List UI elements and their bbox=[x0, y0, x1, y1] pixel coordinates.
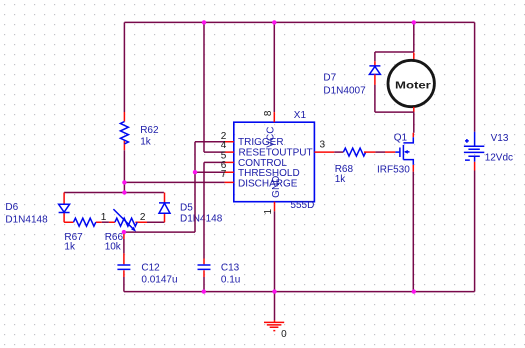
svg-text:0: 0 bbox=[281, 329, 287, 340]
wire pin6 threshold bbox=[195, 171, 225, 173]
wire motor branch from rail bbox=[413, 22, 415, 52]
svg-text:12Vdc: 12Vdc bbox=[485, 153, 513, 164]
svg-text:7: 7 bbox=[221, 169, 227, 180]
svg-text:1k: 1k bbox=[140, 136, 152, 147]
wire diode loop top bbox=[64, 192, 164, 194]
svg-text:Moter: Moter bbox=[395, 80, 431, 91]
svg-text:OUTPUT: OUTPUT bbox=[272, 147, 313, 158]
svg-text:4: 4 bbox=[221, 140, 227, 151]
pin stub 555 output bbox=[314, 151, 334, 153]
resistor R68 bbox=[343, 148, 375, 156]
svg-text:D7: D7 bbox=[323, 73, 336, 84]
svg-text:10k: 10k bbox=[105, 242, 122, 253]
junction discharge wire bbox=[122, 180, 126, 184]
wire freewheel top bbox=[375, 51, 414, 53]
svg-text:0.1u: 0.1u bbox=[221, 275, 240, 286]
svg-text:D1N4007: D1N4007 bbox=[323, 85, 366, 96]
wire freewheel bottom bbox=[375, 112, 414, 133]
wire C12 to ground rail bbox=[123, 277, 125, 292]
wire source to rail bbox=[412, 172, 414, 292]
svg-text:2: 2 bbox=[140, 212, 146, 223]
resistor R67 bbox=[64, 218, 102, 226]
wire pin7 discharge bbox=[124, 181, 224, 183]
transistor Q1 IRF530 bbox=[400, 133, 413, 172]
wire battery to rail bbox=[474, 171, 476, 292]
svg-text:GND: GND bbox=[271, 176, 282, 198]
wire R68 to gate bbox=[375, 151, 385, 153]
svg-text:1k: 1k bbox=[64, 242, 76, 253]
pin stub 555 vcc bbox=[273, 22, 275, 112]
svg-text:D5: D5 bbox=[180, 202, 193, 213]
junction rail gnd bbox=[272, 289, 276, 293]
diode D7 bbox=[369, 52, 380, 112]
wire control branch to C13 bbox=[204, 162, 225, 258]
svg-text:V13: V13 bbox=[491, 133, 509, 144]
svg-text:RESET: RESET bbox=[239, 147, 272, 158]
junction top rail / reset branch bbox=[202, 20, 206, 24]
voltage source V13 bbox=[464, 132, 484, 162]
diode D5 bbox=[159, 193, 170, 223]
ground rail bbox=[124, 291, 475, 293]
wire wiper to trigger branch bbox=[124, 231, 195, 233]
wire between R67 and R66 bbox=[102, 221, 109, 223]
svg-text:VCC: VCC bbox=[266, 127, 277, 148]
junction diode loop top bbox=[122, 190, 126, 194]
svg-text:TRIGGER: TRIGGER bbox=[238, 137, 284, 148]
wire from top rail down to R62 bbox=[123, 22, 125, 112]
svg-text:3: 3 bbox=[320, 140, 326, 151]
motor M1 bbox=[388, 60, 434, 106]
svg-text:DISCHARGE: DISCHARGE bbox=[238, 178, 298, 189]
resistor R62 bbox=[120, 112, 128, 150]
svg-text:D1N4148: D1N4148 bbox=[180, 213, 223, 224]
svg-text:IRF530: IRF530 bbox=[377, 165, 410, 176]
junction wiper node bbox=[122, 230, 126, 234]
capacitor C12 bbox=[117, 253, 130, 277]
svg-text:0.0147u: 0.0147u bbox=[141, 275, 177, 286]
wire battery from rail bbox=[474, 22, 476, 131]
junction threshold pin bbox=[193, 170, 197, 174]
svg-text:1: 1 bbox=[101, 212, 107, 223]
wire output row bbox=[334, 151, 343, 153]
diode D6 bbox=[59, 193, 70, 223]
pin stubs 555 left bbox=[225, 142, 234, 183]
svg-text:Q1: Q1 bbox=[394, 133, 408, 144]
wire R62 down to discharge node bbox=[123, 150, 125, 192]
svg-text:C12: C12 bbox=[141, 263, 160, 274]
wire gnd symbol stem bbox=[274, 292, 276, 320]
pin stub motor bottom bbox=[413, 107, 415, 112]
junction top rail / motor branch bbox=[412, 20, 416, 24]
wire top supply rail bbox=[124, 21, 474, 23]
svg-text:1: 1 bbox=[263, 208, 274, 214]
svg-text:D6: D6 bbox=[5, 202, 18, 213]
op-amp U1 555 timer X1 bbox=[234, 122, 315, 202]
svg-text:1k: 1k bbox=[335, 174, 347, 185]
svg-text:555D: 555D bbox=[290, 200, 314, 211]
svg-text:C13: C13 bbox=[221, 263, 240, 274]
wire wiper node down to C12 bbox=[123, 232, 125, 239]
wire trigger/threshold vertical bbox=[195, 142, 225, 232]
junction top rail / vcc branch bbox=[272, 20, 276, 24]
wire pot to D5 bbox=[147, 221, 165, 223]
svg-text:R62: R62 bbox=[140, 125, 159, 136]
junction rail source bbox=[412, 289, 416, 293]
svg-text:8: 8 bbox=[263, 110, 274, 116]
pin stub battery minus bbox=[474, 162, 476, 171]
wire reset branch from rail bbox=[204, 22, 225, 152]
pin stub 555 gnd bbox=[274, 202, 276, 212]
svg-text:X1: X1 bbox=[294, 110, 307, 121]
potentiometer R66 bbox=[109, 209, 147, 232]
pin stub motor top bbox=[413, 53, 415, 61]
wire C13 to ground rail bbox=[203, 277, 205, 292]
ground bbox=[264, 320, 284, 331]
svg-text:D1N4148: D1N4148 bbox=[5, 214, 48, 225]
junction rail C13 bbox=[202, 289, 206, 293]
capacitor C13 bbox=[198, 259, 211, 278]
